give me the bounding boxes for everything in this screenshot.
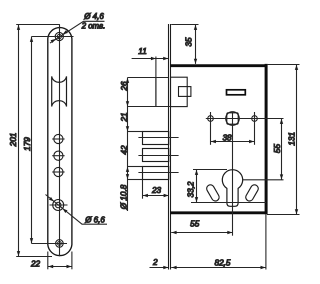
bottom hole crosshair — [32, 243, 68, 245]
dimension 201 extension bottom — [16, 256, 52, 258]
svg-text:55: 55 — [190, 220, 200, 229]
dimension 22 extensions — [47, 252, 49, 270]
extension right edge below body — [265, 214, 267, 269]
hole 6.6 outer circle — [53, 200, 64, 211]
dimension 23 extension — [142, 180, 144, 199]
bolt pin 2 centerline — [138, 155, 178, 157]
bolt pin 2 — [143, 149, 169, 162]
dimension 2 line left part — [150, 267, 169, 269]
dimension 82.5 line — [171, 267, 266, 269]
dimension 11 extension — [155, 57, 157, 78]
dimension 201 line — [18, 25, 20, 257]
bolt pin 1 — [143, 132, 169, 145]
faceplate side view front line — [168, 24, 170, 270]
central vertical centerline — [232, 112, 234, 236]
hub square — [227, 113, 238, 124]
lock body top edge — [170, 64, 267, 67]
svg-text:Ø 6,6: Ø 6,6 — [84, 216, 105, 225]
svg-text:33,2: 33,2 — [187, 181, 196, 197]
dimension 23 line — [143, 195, 170, 197]
extension pin3 bottom — [128, 179, 143, 181]
lock body right edge — [265, 64, 268, 214]
cylinder horizontal centerline — [243, 179, 284, 181]
latch bolt side view — [155, 78, 157, 107]
svg-text:35: 35 — [184, 37, 193, 47]
hole 6.6 inner circle — [55, 202, 61, 208]
latch housing in body — [171, 77, 188, 106]
latch tail — [179, 87, 191, 97]
hole top 4.6 inner circle — [57, 34, 61, 38]
leader arrow upper-left — [49, 197, 54, 201]
faceplate side view back line — [170, 24, 172, 270]
cylinder keyhole — [222, 170, 242, 207]
svg-text:11: 11 — [138, 47, 147, 56]
lock body bottom edge — [170, 211, 267, 214]
dimension 201 extension top — [16, 24, 60, 26]
leader arrow lower-left — [51, 39, 56, 43]
hole 6.6 crosshair — [50, 204, 68, 206]
svg-text:201: 201 — [9, 133, 18, 148]
dimension 131 extensions — [267, 64, 300, 66]
svg-text:179: 179 — [23, 137, 32, 151]
hole top 4.6 outer circle — [55, 32, 63, 40]
svg-text:22: 22 — [30, 260, 41, 269]
svg-text:82,5: 82,5 — [215, 258, 231, 267]
dimension 55 right line — [281, 119, 283, 180]
svg-text:Ø 4,6: Ø 4,6 — [83, 12, 104, 21]
svg-text:38: 38 — [222, 133, 232, 142]
dimension 55 bottom line — [171, 232, 232, 234]
leader arrow upper-right — [63, 30, 68, 34]
dimension 38 line — [211, 141, 255, 143]
oval cutout right — [244, 183, 259, 202]
svg-text:131: 131 — [288, 132, 297, 146]
dimension 35 line — [195, 25, 197, 64]
slot rectangle — [227, 90, 246, 95]
dimension 35 extension top — [171, 24, 198, 26]
latch bolt top edge with extension — [128, 77, 169, 79]
svg-text:Ø 10,8: Ø 10,8 — [120, 184, 129, 210]
hub horizontal centerline — [206, 118, 284, 120]
hub small circle right — [252, 116, 258, 122]
dimension 33.2 extensions — [193, 169, 227, 171]
hub big circle — [226, 112, 240, 126]
svg-text:42: 42 — [120, 145, 129, 155]
bottom hole outer circle — [56, 240, 64, 248]
faceplate front view outline — [48, 28, 72, 256]
svg-text:2 отв.: 2 отв. — [81, 22, 106, 31]
leader arrow lower-right — [63, 209, 68, 213]
leader line dia 4.6 — [50, 21, 105, 43]
dimension 131 line — [296, 65, 298, 215]
oval cutout left — [205, 183, 220, 202]
hole row circle 2 — [54, 151, 63, 160]
extension pin1 top — [128, 131, 143, 133]
bolt pin 1 centerline — [138, 137, 178, 139]
latch cutout on faceplate — [52, 76, 67, 106]
left dimension chain line — [127, 78, 129, 212]
dimension 179 line — [31, 37, 33, 244]
svg-text:23: 23 — [151, 186, 162, 195]
bolt pin 3 centerline — [138, 172, 178, 174]
dimension 11 line — [132, 58, 169, 60]
svg-text:55: 55 — [273, 144, 282, 154]
svg-text:21: 21 — [120, 112, 129, 122]
leader line dia 6.6 — [46, 195, 108, 225]
hole top crosshair horizontal — [32, 36, 74, 38]
latch bolt bottom edge with extension — [128, 106, 171, 108]
bolt pin 3 — [143, 167, 169, 180]
bottom hole inner circle — [58, 242, 62, 246]
hub small circle left — [208, 116, 214, 122]
dimension 22 line — [48, 266, 72, 268]
svg-text:2: 2 — [152, 258, 158, 267]
faceplate vertical centerline — [59, 25, 61, 257]
extension pin3 top — [128, 166, 143, 168]
hole row circle 3 — [54, 167, 63, 176]
dimension 33.2 line — [196, 170, 198, 203]
svg-text:26: 26 — [120, 81, 129, 92]
hole row circle 1 — [54, 134, 63, 143]
